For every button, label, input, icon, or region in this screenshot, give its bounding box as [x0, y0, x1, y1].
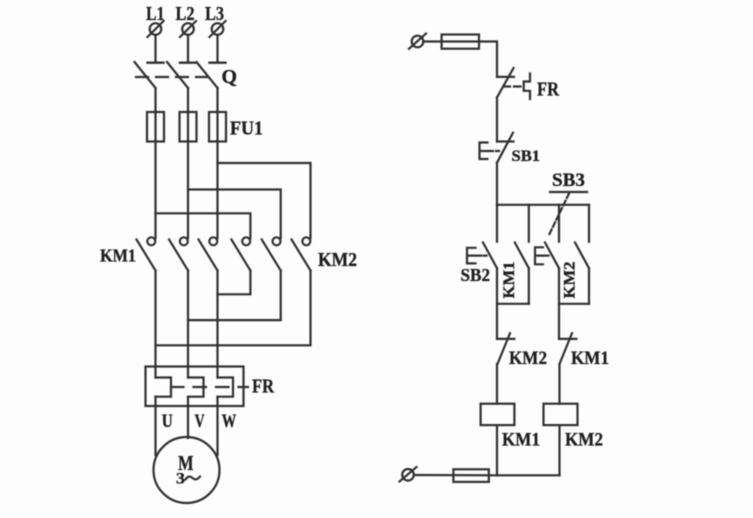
pushbutton SB2 (NO): [467, 243, 497, 269]
wire L1 to breaker: [154, 35, 156, 62]
svg-text:KM2: KM2: [509, 348, 547, 369]
FR dashed link: [504, 85, 522, 87]
svg-text:W: W: [222, 411, 237, 432]
wire interlock to coil left: [496, 364, 498, 404]
motor label 3~: [176, 471, 200, 488]
wire SB1 to bus: [496, 163, 498, 205]
contact KM1 aux (NO): [515, 243, 529, 269]
FR heater phase2: [188, 378, 204, 397]
svg-text:KM2: KM2: [561, 262, 578, 299]
wire bus to SB3: [558, 205, 560, 242]
wire bus to KM2 aux: [588, 205, 590, 242]
control bus: [497, 204, 589, 206]
wire bus to KM1 aux: [528, 205, 530, 242]
wire KM2 out3 to phase1: [156, 271, 311, 346]
wire L3 to breaker: [216, 35, 218, 62]
control fuse top: [442, 35, 479, 49]
fuse FU1 phase3: [209, 112, 226, 142]
wire phase1 Q to KM1 contact: [154, 88, 156, 238]
svg-text:KM1: KM1: [501, 262, 518, 299]
wire merge left: [497, 303, 529, 305]
breaker Q pole 2: [167, 62, 196, 88]
contactor KM2 main contact 2: [262, 237, 281, 270]
wire FR to SB1: [496, 97, 498, 141]
svg-text:KM2: KM2: [565, 430, 603, 451]
wire crossover L2 to KM2 pole2: [188, 190, 281, 239]
svg-text:L3: L3: [205, 3, 224, 25]
svg-text:KM1: KM1: [571, 348, 609, 369]
wire terminal to rail: [423, 42, 497, 77]
contact KM2 aux (NO): [575, 243, 589, 269]
coil KM2: [544, 404, 578, 425]
contactor KM1 main contact 3: [199, 237, 218, 270]
svg-text:V: V: [195, 411, 205, 432]
FR NC contact (control): [497, 68, 514, 97]
svg-text:FR: FR: [537, 79, 559, 101]
pushbutton SB1 (NC): [480, 133, 514, 163]
svg-text:SB2: SB2: [461, 265, 491, 285]
svg-text:SB3: SB3: [552, 170, 585, 191]
wire merge right: [559, 303, 589, 305]
contactor KM1 main contact 1: [137, 237, 156, 270]
svg-text:SB1: SB1: [512, 148, 541, 165]
wire bus to SB2: [496, 205, 498, 242]
wire KM1 out2 to FR: [187, 271, 189, 378]
wire bottom to terminal: [414, 474, 497, 476]
motor M circle: [154, 437, 220, 503]
wire KM1 out3 to FR: [216, 271, 218, 378]
svg-text:KM1: KM1: [502, 430, 540, 451]
wire SB2 down: [496, 268, 498, 339]
wire KM2 out1 to phase3: [218, 271, 251, 295]
wire KM1 aux down: [528, 268, 530, 304]
label SB3 with leader: [549, 170, 588, 236]
wire crossover L1 to KM2 pole1: [156, 213, 251, 238]
svg-text:U: U: [162, 411, 173, 432]
pushbutton SB3 (NO): [535, 243, 559, 269]
wire L2 to breaker: [187, 35, 189, 62]
svg-text:FR: FR: [252, 376, 274, 398]
fuse FU1 phase1: [147, 112, 164, 142]
svg-text:3: 3: [176, 471, 185, 488]
svg-text:KM2: KM2: [318, 249, 357, 271]
FR heater phase1: [156, 378, 172, 397]
coil KM1: [481, 404, 515, 425]
fuse FU1 phase2: [180, 112, 197, 142]
contact KM2 interlock (NC): [497, 333, 514, 364]
terminal L1: [146, 3, 165, 37]
FR heater phase3: [218, 378, 234, 397]
wire phase3 Q to KM1 contact: [216, 88, 218, 238]
breaker Q pole 1: [135, 62, 164, 88]
control fuse bottom: [453, 469, 488, 482]
contactor KM2 main contact 1: [231, 237, 250, 270]
wire coil KM1 down: [496, 425, 498, 475]
FR linkage dashed: [171, 386, 248, 388]
wire crossover L3 to KM2 pole3: [218, 163, 311, 238]
wire FR to motor V: [187, 397, 189, 438]
wire KM2 aux down: [588, 268, 590, 304]
contactor KM2 main contact 3: [292, 237, 311, 270]
wire FR to motor U: [154, 397, 156, 455]
wire KM2 out2 to phase2: [188, 271, 281, 321]
terminal L2: [176, 3, 197, 37]
svg-text:L2: L2: [176, 3, 195, 25]
FR heater element (control): [524, 74, 530, 100]
svg-text:FU1: FU1: [230, 118, 263, 140]
control terminal bottom: [400, 467, 417, 482]
contact KM1 interlock (NC): [559, 333, 576, 364]
svg-text:KM1: KM1: [100, 246, 136, 266]
contactor KM1 main contact 2: [169, 237, 188, 270]
control terminal top: [409, 34, 426, 49]
wire phase2 Q to KM1 contact: [187, 88, 189, 238]
breaker Q pole 3: [197, 62, 226, 88]
bottom bus: [497, 474, 560, 476]
svg-text:Q: Q: [222, 66, 238, 88]
terminal L3: [205, 3, 226, 37]
wire interlock to coil right: [558, 364, 560, 404]
thermal relay FR box: [146, 367, 244, 407]
wire coil KM2 down: [558, 425, 560, 475]
wire FR to motor W: [216, 397, 218, 455]
wire KM1 out1 to FR: [154, 271, 156, 378]
breaker Q linkage dashed: [136, 76, 214, 78]
wire SB3 down: [558, 268, 560, 339]
